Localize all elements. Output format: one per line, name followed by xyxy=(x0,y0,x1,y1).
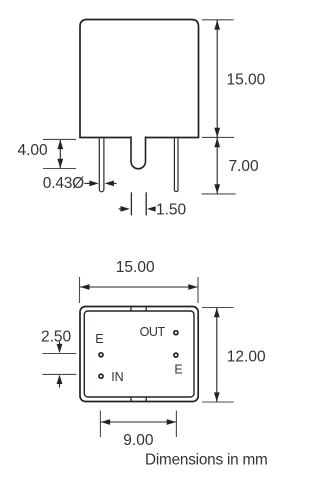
svg-text:1.50: 1.50 xyxy=(156,201,187,218)
svg-text:0.43Ø: 0.43Ø xyxy=(43,175,84,192)
package outline inner (bottom view) xyxy=(84,311,194,397)
svg-text:4.00: 4.00 xyxy=(18,142,49,159)
dimension 4.00 (tab length) xyxy=(18,139,77,168)
dimension 12.00 (bottom view height) xyxy=(202,308,266,403)
pin hole IN (left lower) xyxy=(99,370,124,384)
dimension 9.00 (hole spacing bottom) xyxy=(100,411,176,449)
svg-text:OUT: OUT xyxy=(140,325,166,339)
dimension 15.00 (side view height) xyxy=(202,20,266,138)
package body (side view) xyxy=(80,20,199,138)
dimension 2.50 (hole spacing left) xyxy=(41,329,76,388)
pin hole E (left upper) xyxy=(95,332,103,357)
center mounting tab (side view) xyxy=(131,136,146,168)
svg-text:2.50: 2.50 xyxy=(41,329,72,346)
pin hole OUT (right upper) xyxy=(140,325,178,339)
svg-text:7.00: 7.00 xyxy=(229,158,260,175)
svg-text:E: E xyxy=(174,363,182,377)
left pin lead (side view) xyxy=(99,138,104,191)
svg-text:E: E xyxy=(95,332,103,346)
pin hole E (right mid) xyxy=(174,353,183,377)
svg-text:IN: IN xyxy=(111,370,124,384)
dimension 1.50 (tab width) xyxy=(119,192,187,218)
dimension 0.43Ø (pin diameter callout) xyxy=(43,175,117,192)
svg-text:9.00: 9.00 xyxy=(123,432,154,449)
tab marks top (bottom view) xyxy=(131,307,146,312)
package outline outer (bottom view) xyxy=(80,307,198,402)
svg-text:15.00: 15.00 xyxy=(116,259,155,276)
dimension 15.00 (bottom view width) xyxy=(80,259,199,303)
right pin lead (side view) xyxy=(174,138,178,191)
svg-text:Dimensions in mm: Dimensions in mm xyxy=(145,452,268,469)
dimension 7.00 (pin length below body) xyxy=(202,138,260,194)
tab marks bottom (bottom view) xyxy=(131,397,146,402)
svg-text:15.00: 15.00 xyxy=(227,72,266,89)
svg-text:12.00: 12.00 xyxy=(227,348,266,365)
